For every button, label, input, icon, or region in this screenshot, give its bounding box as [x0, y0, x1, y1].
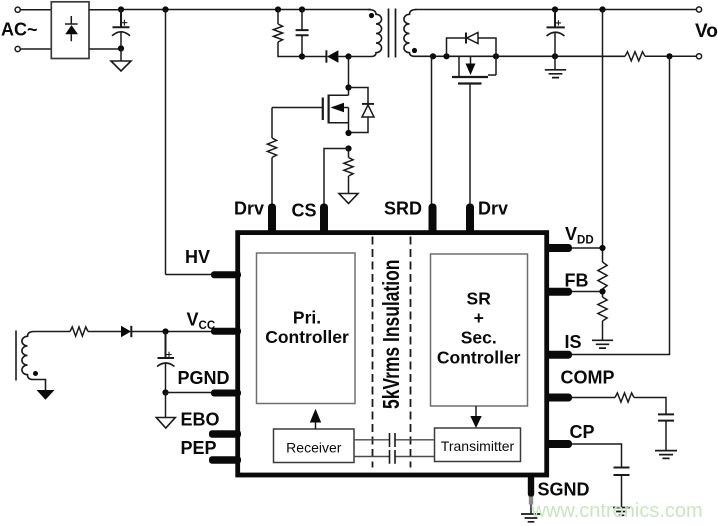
node Vo+ terminal [696, 7, 701, 12]
ground bulk cap (open triangle) [111, 61, 131, 71]
node AC line terminal top [15, 7, 20, 12]
wire primary HV rail [121, 9, 371, 11]
svg-text:COMP: COMP [561, 368, 615, 388]
op-amp U1 primary controller block [257, 253, 356, 404]
ground aux winding (filled triangle) [37, 390, 55, 400]
pin CP [545, 440, 573, 448]
op-amp U1 receiver block [274, 429, 355, 463]
wire sense R to ground [348, 176, 350, 194]
wire PGND to pin [166, 392, 214, 394]
op-amp U1 controller IC body [238, 233, 547, 475]
node PGND junction [162, 389, 168, 395]
capacitor COMP C [658, 414, 674, 420]
svg-text:www.cntronics.com: www.cntronics.com [531, 500, 703, 522]
svg-text:5kVrms Insulation: 5kVrms Insulation [380, 260, 405, 409]
svg-text:Drv: Drv [234, 199, 264, 219]
node output cap bottom junction [552, 53, 558, 59]
svg-text:FB: FB [565, 271, 589, 291]
svg-text:Receiver: Receiver [286, 439, 342, 455]
wire COMP pin to resistor [572, 397, 616, 399]
node CS tap junction [345, 145, 351, 151]
svg-text:AC~: AC~ [1, 20, 38, 40]
svg-text:Transimitter: Transimitter [441, 438, 515, 454]
wire SR gate to Drv pin [469, 84, 471, 205]
wire cap to ground [120, 49, 122, 62]
diode VCC D (points right) [121, 326, 213, 337]
pin VDD [545, 244, 573, 252]
svg-text:SR: SR [467, 289, 492, 309]
wire SRD pin to rail [431, 56, 433, 204]
pin SGND [528, 475, 534, 497]
wire AC top to bridge [20, 9, 51, 11]
wire bridge- to bulk cap [89, 48, 121, 50]
transformer T1 primary winding [349, 10, 382, 57]
pin EBO [209, 430, 241, 438]
transistor Q2 SR MOSFET [452, 56, 496, 83]
node VCC junction [162, 328, 168, 334]
ground COMP [655, 451, 677, 459]
wire VDD tap vertical [602, 10, 604, 263]
svg-text:Controller: Controller [437, 348, 521, 368]
node snubber cap top [299, 6, 305, 12]
resistor FB divider upper [598, 262, 607, 289]
capacitor snubber C [296, 10, 309, 57]
pin PEP [209, 456, 241, 464]
wire sec controller to transmitter arrow [470, 406, 481, 428]
svg-text:+: + [474, 308, 484, 328]
pin Drv (secondary) [466, 204, 474, 235]
ground SGND [521, 514, 541, 522]
node VDD junction [599, 245, 605, 251]
pin HV [211, 271, 241, 278]
wire aux to resistor [34, 331, 70, 333]
ground CP [613, 508, 630, 516]
ground PGND (open triangle) [156, 418, 175, 429]
svg-text:CP: CP [570, 422, 595, 442]
wire bridge+ to rail [89, 9, 121, 11]
node secondary phase dot [412, 48, 417, 53]
svg-text:CS: CS [292, 201, 317, 221]
transformer T1 secondary winding [404, 10, 433, 57]
transistor Q1 primary MOSFET [323, 95, 349, 134]
node snubber resistor top [275, 6, 281, 12]
node output cap top [552, 6, 558, 12]
ground FB divider [592, 340, 613, 348]
wire FB pin to divider [572, 291, 603, 293]
node AC neutral terminal bottom [15, 46, 20, 51]
wire HV vertical [165, 10, 167, 275]
wire gate lead [272, 107, 323, 109]
node SR diode left junction [443, 53, 449, 59]
node VDD tap top [599, 6, 605, 12]
node HV tap [162, 6, 168, 12]
resistor FB divider lower [598, 297, 607, 321]
node drain body diode junction [345, 84, 351, 90]
svg-text:Controller: Controller [265, 327, 349, 347]
pin VCC [211, 328, 241, 335]
capacitor coupling lower [390, 450, 396, 464]
resistor output sense R [625, 52, 645, 61]
label Pri. Controller [265, 308, 349, 347]
capacitor CP C [614, 468, 630, 476]
wire CP pin to cap [572, 444, 622, 467]
wire gate R to Drv pin [271, 158, 273, 205]
capacitor bulk C (polarized) [112, 10, 130, 49]
wire divider middle [602, 289, 604, 297]
svg-text:HV: HV [185, 247, 210, 267]
node source junction [345, 130, 351, 136]
resistor gate drive R [271, 108, 273, 139]
capacitor VCC C (polarized) [157, 332, 175, 393]
node snubber bottom junction [299, 53, 305, 59]
svg-text:Drv: Drv [478, 199, 508, 219]
wire SGND to ground [530, 505, 532, 514]
node FB junction [599, 288, 605, 294]
transformer T1 core [389, 9, 396, 58]
wire coupling link upper [354, 439, 435, 441]
ground current sense (open triangle) [339, 194, 358, 204]
svg-text:EBO: EBO [181, 410, 220, 430]
wire output cap to ground [554, 56, 556, 70]
wire divider to ground [602, 321, 604, 340]
wire VDD pin to divider [572, 247, 603, 249]
node bulk cap junction [118, 6, 124, 12]
ground output cap [545, 70, 566, 78]
diode Q1 body diode [349, 88, 375, 133]
node SRD tap [430, 53, 436, 59]
resistor current sense R [348, 149, 350, 158]
svg-text:Sec.: Sec. [461, 328, 497, 348]
pin FB [545, 288, 573, 296]
node Vo- terminal [696, 54, 701, 59]
wire drain link from snubber node [348, 57, 350, 96]
wire secondary return rail [433, 55, 625, 57]
wire AC bottom to bridge [20, 48, 51, 50]
wire resistor to diode [88, 331, 121, 333]
pin Drv (primary) [268, 204, 276, 235]
diode snubber D (points left) [326, 50, 348, 62]
wire coupling link lower [354, 456, 435, 458]
node primary winding bottom junction [345, 53, 351, 59]
wire snubber R bottom [278, 42, 302, 57]
node aux phase dot [33, 371, 38, 376]
resistor snubber R [277, 10, 279, 25]
svg-text:PEP: PEP [181, 438, 217, 458]
wire secondary output rail top [415, 9, 696, 11]
resistor COMP R [615, 393, 634, 402]
capacitor coupling upper [390, 433, 396, 447]
node SR diode right junction [493, 53, 499, 59]
diode SR parallel diode [447, 33, 497, 57]
svg-text:Vo: Vo [695, 21, 718, 42]
wire CP cap to ground [621, 475, 623, 507]
resistor VCC R [70, 327, 88, 336]
pin IS [545, 351, 573, 359]
wire to PGND ground [165, 393, 167, 418]
label SR + Sec. Controller [437, 289, 521, 368]
svg-text:SRD: SRD [384, 199, 422, 219]
wire COMP cap to ground [665, 421, 667, 451]
node insulation barrier dashed line left [372, 237, 374, 468]
wire receiver to pri controller arrow [310, 409, 321, 429]
wire snubber to diode [302, 56, 326, 58]
pin COMP [545, 394, 573, 402]
op-amp U1 SR Sec controller block [431, 254, 528, 406]
svg-text:Pri.: Pri. [293, 308, 321, 328]
wire CS tap to pin [324, 149, 349, 205]
node IS tap [666, 53, 672, 59]
pin SGND gray tip [529, 497, 533, 505]
pin SRD [429, 204, 437, 235]
svg-text:PGND: PGND [178, 368, 230, 388]
bridge rectifier BR1 [51, 2, 89, 59]
node insulation barrier dashed line right [410, 237, 412, 468]
capacitor output C (polarized) [547, 10, 565, 57]
pin CS [320, 204, 328, 235]
transformer aux winding core [15, 331, 17, 381]
wire COMP resistor to cap [634, 398, 666, 415]
node primary phase dot [369, 13, 374, 18]
wire IS sense vertical [572, 56, 670, 354]
inductor aux winding [22, 332, 46, 391]
wire HV horizontal to pin [166, 274, 214, 276]
svg-text:IS: IS [565, 332, 582, 352]
pin PGND [211, 390, 241, 397]
svg-text:SGND: SGND [538, 480, 590, 500]
op-amp U1 transmitter block [435, 428, 521, 462]
node bulk cap bottom junction [118, 45, 124, 51]
wire resistor to Vo- terminal [645, 55, 696, 57]
